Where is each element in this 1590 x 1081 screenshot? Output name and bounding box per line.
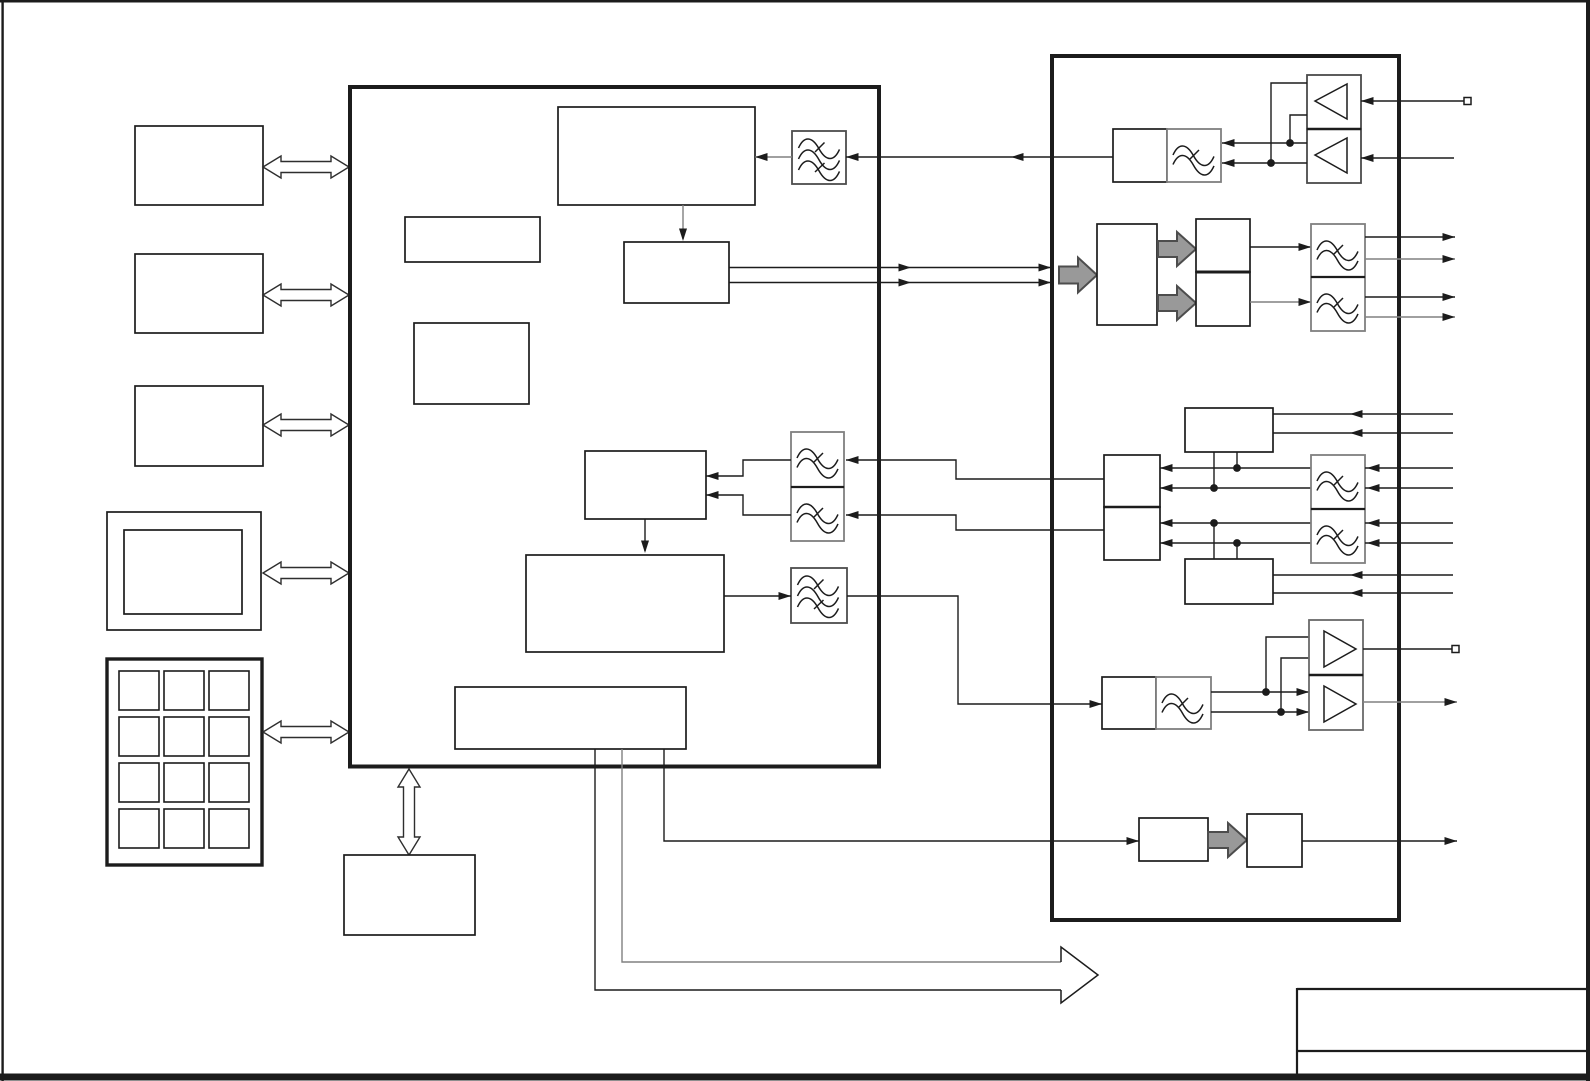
wire RF to F1 [846, 153, 1113, 161]
wire PA tap a [1266, 637, 1309, 692]
wire ref in 2 [1365, 484, 1453, 492]
filter F2a [791, 432, 844, 487]
block VCO bottom [1185, 559, 1273, 604]
amp LNA1 [1307, 75, 1361, 129]
wire ref in 1 [1365, 464, 1453, 472]
amp LNA divider [1307, 128, 1361, 130]
wire F1 to RX block [755, 153, 792, 161]
wire antenna in 2 [1361, 154, 1454, 162]
keypad matrix [107, 659, 262, 865]
filter F1 bandpass [792, 131, 846, 184]
frame baseband [350, 87, 879, 767]
wire IF out 4 [1365, 313, 1455, 321]
wire LNA1 tap b [1271, 83, 1307, 163]
wire L2 [1160, 484, 1311, 492]
amp PA divider [1309, 674, 1363, 676]
wire LNA1 tap a [1290, 115, 1307, 143]
mixer divider [1196, 271, 1250, 274]
filter RF3b [1311, 509, 1365, 563]
junction TX a [1262, 688, 1270, 696]
block synth I [1104, 455, 1160, 507]
filter F3 bandpass [791, 568, 847, 623]
junction b [1267, 159, 1275, 167]
block memory 3 [135, 386, 263, 466]
filter F2 divider [791, 486, 844, 488]
wire mixer I to F [1250, 243, 1311, 251]
wire VCO out 1 [1273, 410, 1453, 418]
wire F2a to demod [706, 460, 791, 480]
block SIM/memory 1 [135, 126, 263, 205]
amp LNA2 [1307, 129, 1361, 183]
block TX driver [1139, 818, 1208, 861]
filter RF1 [1167, 129, 1221, 182]
wire IF Q to F2b [846, 511, 1104, 530]
page border top [0, 0, 1590, 2]
junction L1 [1233, 464, 1241, 472]
wire audio line 3 [664, 749, 1139, 845]
terminal antenna 1 [1464, 98, 1471, 105]
block RX front control [558, 107, 755, 205]
wire F2b to demod [706, 491, 791, 515]
wire IF out 1 [1365, 233, 1455, 241]
amp PA1 [1309, 620, 1363, 675]
synth divider [1104, 506, 1160, 508]
junction a [1286, 139, 1294, 147]
block memory 2 [135, 254, 263, 333]
wire VCO tap 2 [1213, 452, 1215, 488]
bus arrow 3 [263, 414, 349, 436]
wire LNA to RF1 a [1222, 139, 1307, 147]
wire mixer out I [729, 264, 1052, 272]
wire IF I to F2a [846, 456, 1104, 479]
wire IF out 3 [1365, 293, 1455, 301]
amp PA2 [1309, 675, 1363, 730]
page border right [1586, 0, 1590, 1081]
wire F3 to TX modulator [847, 596, 1102, 708]
block audio codec wide [455, 687, 686, 749]
wire ref in 4 [1365, 539, 1453, 547]
wire PA1 out [1363, 648, 1452, 650]
page border left [1, 0, 3, 1081]
bus arrow IF b [1158, 286, 1196, 320]
wire VCO2 out 1 [1273, 571, 1453, 579]
wire antenna in 1 [1361, 97, 1464, 105]
block TX modulator [1102, 677, 1156, 729]
block LCD display [107, 512, 261, 630]
wire PA tap b [1281, 658, 1309, 712]
wire audio line 2 [622, 749, 1061, 962]
filter RF3 divider [1311, 508, 1365, 510]
wire L1 [1160, 464, 1311, 472]
wire VCO2 out 2 [1273, 589, 1453, 597]
filter RF2b [1311, 277, 1365, 331]
junction L2 [1210, 484, 1218, 492]
block small wide [405, 217, 540, 262]
bus arrow 4 [263, 562, 349, 584]
junction L4 [1233, 539, 1241, 547]
filter RF2 divider [1311, 276, 1365, 278]
bus arrow IF a [1158, 232, 1196, 266]
wire mixer out Q [729, 279, 1052, 287]
junction L3 [1210, 519, 1218, 527]
wire RX down to mixer [679, 205, 687, 241]
block synth Q [1104, 507, 1160, 560]
block IF amp [1097, 224, 1157, 325]
wire demod to DSP [641, 519, 649, 553]
open arrow head [1061, 947, 1098, 1003]
block mixer I [1196, 219, 1250, 272]
block EEPROM below [344, 855, 475, 935]
block duplexer RX [1113, 129, 1167, 182]
bus arrow 1 [263, 156, 349, 178]
block TX out [1247, 814, 1302, 867]
block IF mixer [624, 242, 729, 303]
bus arrow IF in [1059, 258, 1097, 293]
wire PA2 out [1363, 698, 1457, 706]
bus arrow vertical [398, 769, 420, 855]
wire mixer Q to F [1250, 298, 1311, 306]
block VCO top [1185, 408, 1273, 452]
page border bottom [0, 1074, 1590, 1081]
wire L4 [1160, 539, 1311, 547]
bus arrow 5 [263, 721, 349, 743]
block demodulator [585, 451, 706, 519]
wire ref in 3 [1365, 519, 1453, 527]
wire VCO out 2 [1273, 429, 1453, 437]
terminal antenna 2 [1452, 646, 1459, 653]
frame RF section [1052, 56, 1399, 920]
filter RF2a [1311, 224, 1365, 277]
wire TX to PA b [1211, 708, 1309, 716]
wire L3 [1160, 519, 1311, 527]
junction TX b [1277, 708, 1285, 716]
block small 2 [414, 323, 529, 404]
wire VCO tap 1 [1236, 452, 1238, 468]
wire DSP to F3 [724, 592, 791, 600]
filter RF4 [1156, 677, 1211, 729]
wire VCO2 tap 3 [1213, 523, 1215, 559]
wire audio line 1 [595, 749, 1061, 990]
bus arrow 2 [263, 284, 349, 306]
wire TX to PA a [1211, 688, 1309, 696]
block baseband DSP [526, 555, 724, 652]
wire IF out 2 [1365, 255, 1455, 263]
filter RF3a [1311, 455, 1365, 509]
bus arrow TX [1208, 823, 1247, 857]
wire LNA to RF1 b [1222, 159, 1307, 167]
block mixer Q [1196, 272, 1250, 326]
filter F2b [791, 487, 844, 541]
wire VCO2 tap 4 [1236, 543, 1238, 559]
title block [1297, 988, 1587, 1077]
wire TX2 out [1302, 837, 1457, 845]
